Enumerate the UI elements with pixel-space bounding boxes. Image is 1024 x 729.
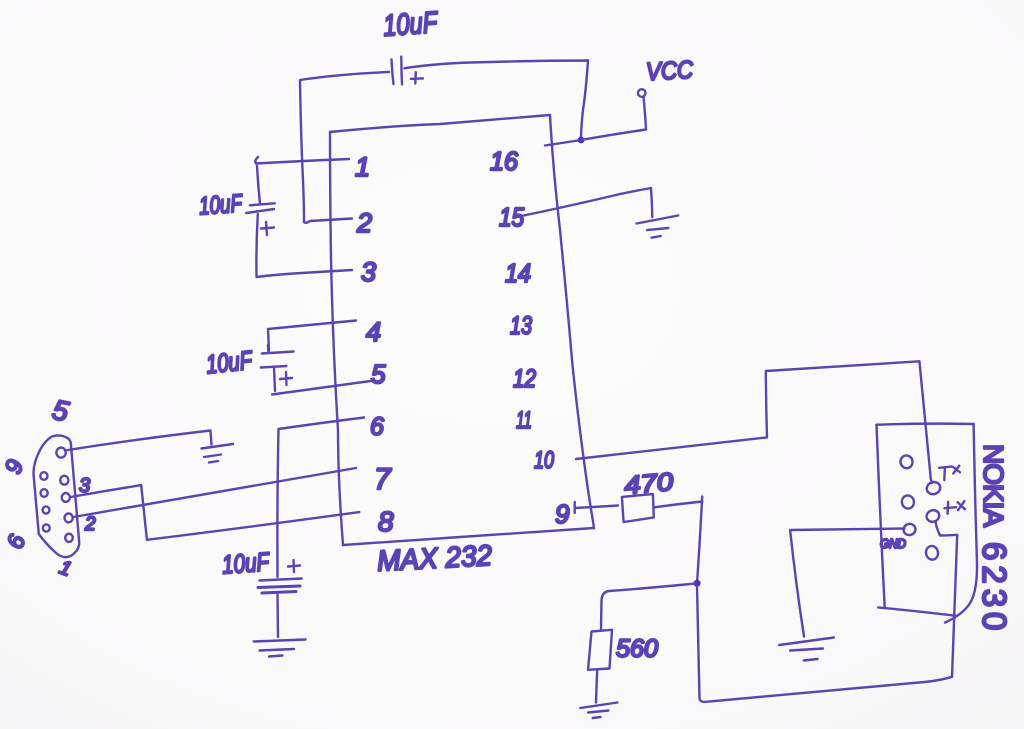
wire pin4 to C3 top (268, 321, 356, 351)
svg-text:1: 1 (355, 152, 370, 182)
svg-text:5: 5 (371, 359, 386, 389)
svg-text:2: 2 (356, 208, 372, 238)
svg-text:10uF: 10uF (382, 6, 439, 43)
wire pin10 to Nokia Tx (576, 361, 932, 483)
wire C4 bottom to ground (276, 595, 279, 638)
svg-text:10: 10 (534, 447, 554, 474)
DB9 hole pin9 (40, 472, 47, 480)
wire DB9 pin3 to pin8 (71, 485, 360, 540)
svg-text:7: 7 (374, 463, 392, 496)
capacitor C3 10uF (pins 4-5) (261, 345, 294, 391)
ground GND3 (DB9 pin5) (202, 444, 234, 463)
svg-text:10uF: 10uF (204, 345, 255, 380)
svg-text:11: 11 (516, 407, 532, 434)
svg-text:MAX 232: MAX 232 (376, 540, 493, 578)
wire C1 left plate to pin 2 (300, 72, 389, 223)
capacitor C4 10uF (pin 6) (258, 560, 302, 593)
wire C2 bottom to pin3 (256, 214, 352, 277)
svg-text:NOKIA: NOKIA (978, 444, 1009, 527)
DB9 hole pin8 (41, 489, 48, 497)
DB9 hole pin2 (65, 514, 73, 523)
Nokia hole Rx (925, 509, 941, 524)
wire junction to Nokia Rx (bottom path) (697, 587, 952, 702)
DB9 hole pin3 (62, 493, 70, 502)
svg-text:560: 560 (616, 635, 658, 663)
svg-text:14: 14 (505, 258, 531, 288)
svg-text:6230: 6230 (976, 542, 1013, 635)
wire pin16 stub (545, 140, 581, 146)
connector J2 Nokia outline (877, 424, 978, 623)
wire DB9 pin5 to ground (65, 431, 212, 451)
svg-text:15: 15 (499, 202, 524, 232)
label Rx (946, 502, 949, 514)
svg-text:3: 3 (361, 257, 376, 287)
capacitor C2 10uF (pins 1-3) (246, 203, 275, 235)
label Tx (939, 467, 951, 468)
svg-text:12: 12 (513, 365, 536, 393)
svg-text:VCC: VCC (645, 56, 694, 86)
DB9 hole pin7 (43, 506, 50, 513)
resistor R2 560 (588, 630, 612, 670)
wire C3 bottom to pin5 (272, 381, 374, 395)
DB9 hole pin4 (60, 476, 68, 485)
wire DB9 pin2 to pin7 (74, 468, 357, 517)
Nokia hole Tx (925, 480, 942, 496)
IC U1 MAX232 outline (330, 115, 594, 545)
wire junction to R2 560 (601, 584, 696, 631)
ground GND1 (pin 15) (637, 216, 679, 238)
svg-text:GND: GND (880, 536, 906, 551)
wire junction to VCC terminal (581, 97, 646, 140)
svg-text:13: 13 (510, 312, 532, 340)
wire Nokia GND to ground (790, 529, 904, 637)
VCC terminal circle (638, 89, 646, 97)
ground GND5 (Nokia) (779, 638, 834, 661)
ground GND4 (R2) (580, 703, 617, 719)
Nokia hole GND (902, 523, 916, 536)
svg-text:4: 4 (366, 317, 381, 347)
DB9 hole pin5 (56, 448, 65, 458)
Nokia hole 6 (925, 545, 939, 561)
svg-text:470: 470 (623, 468, 674, 500)
svg-text:10uF: 10uF (198, 189, 244, 220)
connector J1 DB9 outline (33, 435, 79, 557)
resistor R1 470 (622, 494, 654, 522)
DB9 hole pin6 (43, 524, 50, 531)
node junction at pin16/VCC (578, 137, 585, 144)
svg-text:6: 6 (370, 413, 384, 441)
node junction 2 (693, 580, 700, 587)
wire R2 bottom to ground (596, 670, 597, 703)
svg-text:16: 16 (490, 146, 519, 176)
DB9 hole pin1 (65, 534, 73, 542)
capacitor C1 10uF top (392, 57, 424, 85)
Nokia hole 2 (901, 494, 915, 509)
svg-text:8: 8 (378, 506, 394, 537)
Nokia hole 1 (899, 454, 913, 469)
ground GND2 (C4) (254, 640, 306, 657)
wire pin1 to C2 top (255, 157, 349, 204)
wire R1 right to junction (654, 497, 702, 584)
wire pin6 to C4 top (277, 418, 364, 578)
svg-text:9: 9 (555, 499, 569, 529)
wire Rx riser (936, 522, 958, 677)
wire pin15 to ground (514, 188, 652, 218)
svg-text:10uF: 10uF (221, 546, 272, 579)
svg-text:2: 2 (84, 514, 96, 535)
wire pin9 stub (575, 502, 618, 513)
wire C1 right plate to junction at pin16 (404, 61, 588, 141)
